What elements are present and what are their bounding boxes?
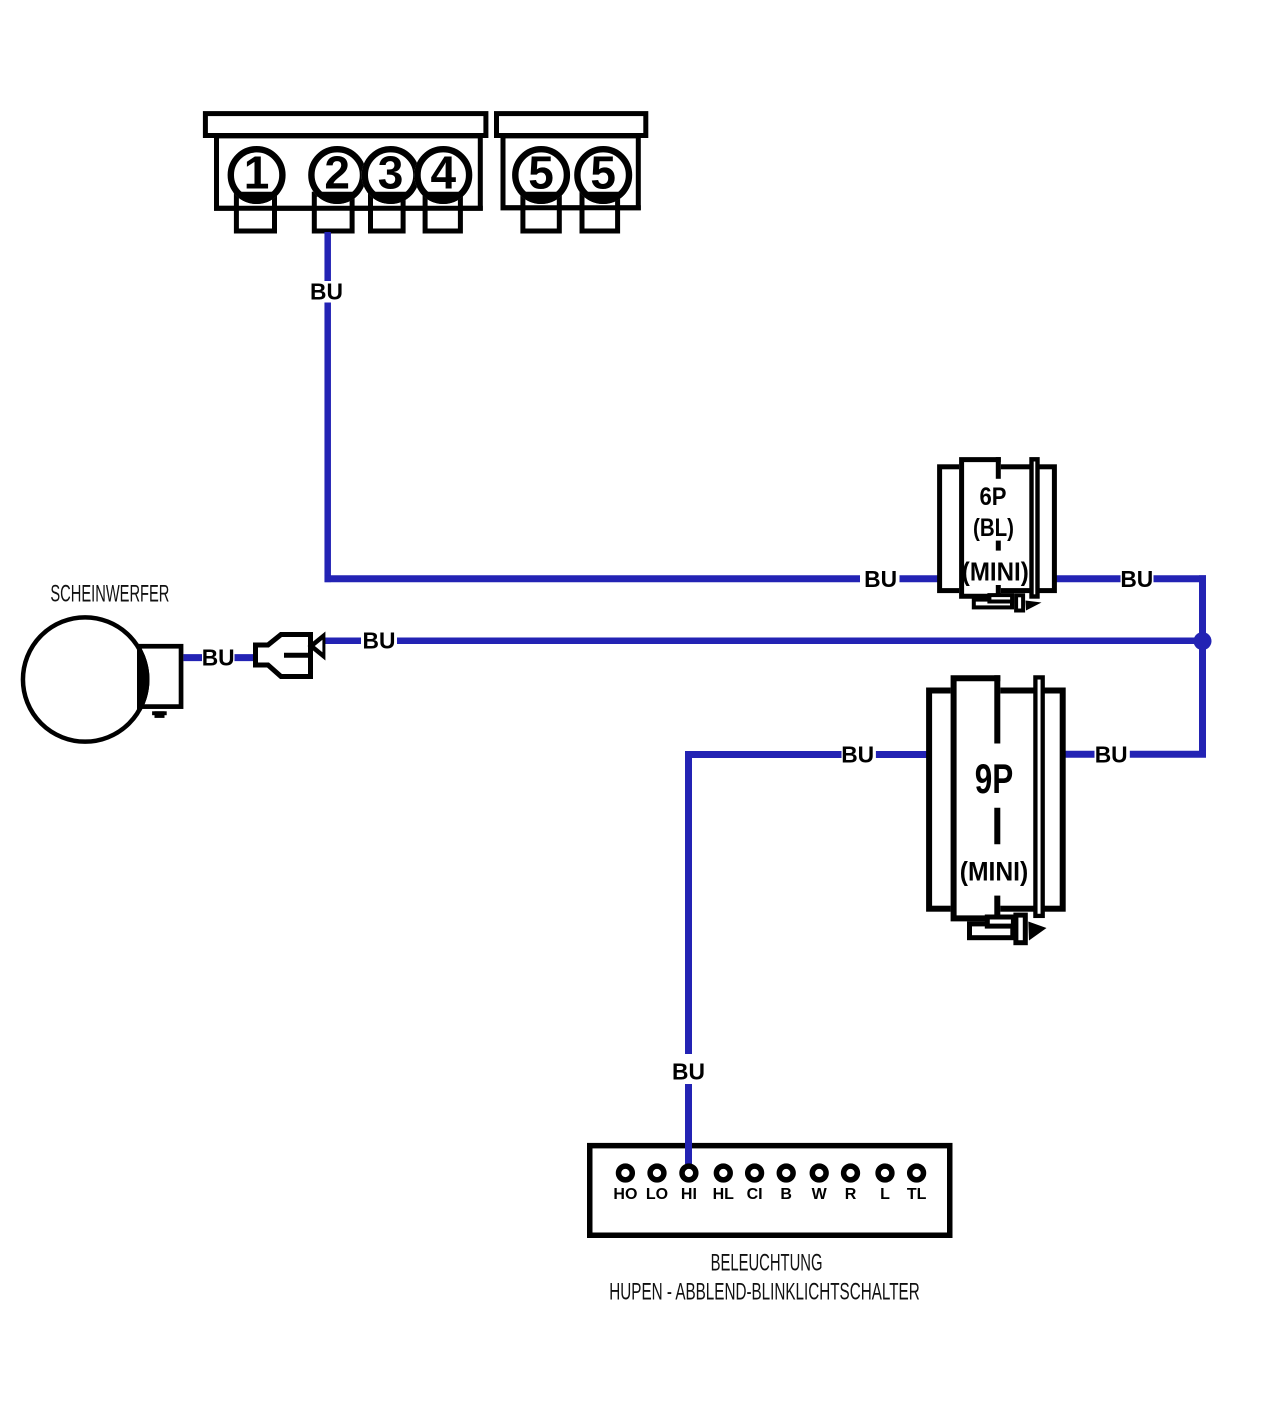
connector 9P latch plate B (987, 917, 1013, 926)
switch terminal labels (613, 1186, 926, 1203)
svg-text:6P: 6P (980, 483, 1007, 511)
svg-text:BU: BU (864, 566, 897, 592)
fuse block A body (217, 136, 481, 208)
connector 9P latch wedge (1028, 922, 1046, 941)
connector 6P latch plate B (989, 595, 1012, 601)
wire BU into 6P left (900, 575, 940, 582)
terminal tab under bulb 1 (236, 194, 274, 231)
svg-text:1: 1 (244, 147, 270, 199)
svg-text:BELEUCHTUNG: BELEUCHTUNG (711, 1249, 823, 1276)
svg-text:B: B (780, 1186, 792, 1203)
svg-text:9P: 9P (975, 755, 1014, 802)
terminal tab under bulb 5a (523, 194, 559, 231)
terminal HO (619, 1166, 633, 1180)
svg-text:BU: BU (1120, 566, 1153, 592)
svg-text:HL: HL (713, 1186, 735, 1203)
bulb 5b (574, 146, 632, 204)
bullet connector pin (284, 653, 308, 658)
terminal HL (716, 1166, 730, 1180)
fuse block B body (503, 136, 638, 208)
terminal tab under bulb 5b (582, 194, 618, 231)
connector 6P latch pin (1016, 595, 1023, 610)
svg-text:L: L (880, 1186, 890, 1203)
bullet connector body (256, 635, 311, 677)
svg-text:HO: HO (613, 1186, 637, 1203)
fuse block B lid (497, 114, 646, 136)
wire middle long horizontal right part (397, 637, 1203, 644)
svg-text:LO: LO (646, 1186, 668, 1203)
connector 6P latch wedge (1026, 601, 1042, 611)
wire into 9P left (876, 751, 927, 758)
connector 6P labels (962, 483, 1029, 587)
terminal W (812, 1166, 826, 1180)
connector 6P right bar (1032, 459, 1038, 596)
svg-text:SCHEINWERFER: SCHEINWERFER (50, 580, 169, 607)
wire from 9P left (corner to label) (689, 751, 842, 758)
svg-text:BU: BU (841, 741, 874, 767)
svg-text:(BL): (BL) (973, 514, 1014, 542)
connector 9P center body (951, 675, 1001, 921)
terminal tab under bulb 2 (314, 194, 352, 231)
fuse block A lid (205, 114, 486, 136)
svg-text:BU: BU (672, 1059, 705, 1085)
connector 9P latch plate A (970, 924, 1013, 938)
terminal LO (650, 1166, 664, 1180)
svg-text:BU: BU (1095, 741, 1128, 767)
bulb 4 (414, 146, 472, 204)
svg-text:HUPEN - ABBLEND-BLINKLICHTSCHA: HUPEN - ABBLEND-BLINKLICHTSCHALTER (609, 1279, 919, 1306)
switch box (590, 1146, 950, 1236)
connector 9P right bar (1035, 677, 1042, 916)
wire BU from 6P right (1055, 575, 1121, 582)
wire from 9P right (1065, 751, 1095, 758)
wire main vertical bus (1199, 575, 1206, 757)
headlamp bottom tab (152, 711, 167, 715)
svg-text:(MINI): (MINI) (960, 857, 1029, 887)
wire BU from bulb 2 down (upper segment) (324, 232, 331, 281)
terminal tab under bulb 4 (425, 194, 460, 231)
connector 9P outer (929, 691, 1063, 909)
wire from headlamp to bullet (left of label) (184, 654, 203, 661)
svg-text:W: W (812, 1186, 828, 1203)
svg-text:5: 5 (528, 147, 554, 199)
wire 9P right to bus corner (1130, 751, 1206, 758)
svg-text:3: 3 (378, 147, 404, 199)
svg-text:R: R (845, 1186, 857, 1203)
junction node (1194, 632, 1212, 650)
connector 6P center body (959, 457, 1001, 599)
bulb 5a (512, 146, 570, 204)
bullet connector male triangle (308, 632, 326, 661)
terminal B (779, 1166, 793, 1180)
connector 6P latch plate A (974, 600, 1012, 608)
connector 9P latch pin (1016, 915, 1025, 943)
fuse block A bottom edge (214, 206, 483, 211)
wire BU vertical down to horizontal run (324, 303, 331, 583)
terminal L (878, 1166, 892, 1180)
wire vertical down to switch (upper) (685, 751, 692, 1054)
wire middle long horizontal (bullet to bus) (323, 637, 361, 644)
svg-text:5: 5 (590, 147, 616, 199)
bulb 2 (308, 146, 366, 204)
svg-text:CI: CI (747, 1186, 763, 1203)
terminal TL (910, 1166, 924, 1180)
bulb 1 (228, 146, 286, 204)
connector 9P labels (960, 755, 1029, 887)
svg-text:2: 2 (324, 147, 350, 199)
svg-text:TL: TL (907, 1186, 927, 1203)
svg-text:BU: BU (363, 628, 396, 654)
wire BU horizontal run to 6P (left of label) (325, 575, 861, 582)
svg-text:4: 4 (431, 147, 457, 199)
headlamp bulb base rect (139, 646, 181, 706)
wire BU to top right corner (1154, 575, 1207, 582)
svg-text:BU: BU (202, 645, 235, 671)
switch terminals (619, 1166, 924, 1180)
connector 6P outer (940, 467, 1055, 591)
bulb 3 (362, 146, 420, 204)
svg-text:HI: HI (681, 1186, 697, 1203)
fuse block B bottom edge (501, 205, 641, 210)
terminal tab under bulb 3 (371, 194, 404, 231)
terminal HI (682, 1166, 696, 1180)
headlamp circle (23, 617, 147, 741)
svg-text:(MINI): (MINI) (962, 557, 1029, 587)
svg-text:BU: BU (310, 278, 343, 304)
wire into bullet connector (235, 654, 257, 661)
terminal CI (748, 1166, 762, 1180)
terminal R (844, 1166, 858, 1180)
wire vertical down to switch (lower) (685, 1084, 692, 1164)
